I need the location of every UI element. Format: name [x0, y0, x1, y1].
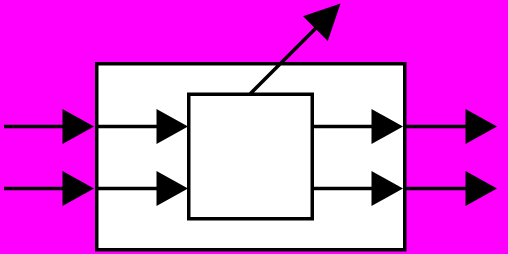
wire arrow ext1: [405, 125, 467, 129]
wire arrow out1: [313, 125, 373, 129]
wire arrow in2: [4, 187, 66, 191]
wire arrow in1: [4, 125, 66, 129]
inner box: [189, 94, 313, 219]
wire arrow diagonal: [250, 25, 320, 95]
outer box: [97, 64, 405, 250]
wire arrow mid2: [97, 187, 159, 191]
wire arrow mid1: [97, 125, 159, 129]
wire arrow ext2: [405, 187, 467, 191]
wire arrow out2: [313, 187, 373, 191]
